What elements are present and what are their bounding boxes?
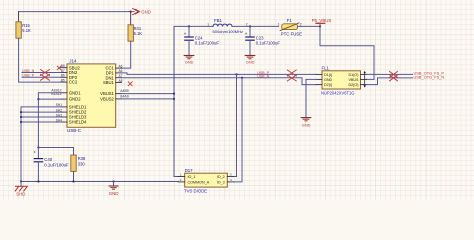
svg-text:F1: F1 <box>287 18 293 23</box>
svg-text:2: 2 <box>300 22 302 26</box>
wire USB_N run <box>122 78 317 85</box>
svg-text:B7: B7 <box>61 69 65 73</box>
wire GND1 <box>38 93 60 99</box>
ground GND under C24 <box>184 56 194 59</box>
svg-text:B5: B5 <box>61 78 65 82</box>
svg-text:GND: GND <box>141 10 151 15</box>
svg-text:1: 1 <box>278 22 280 26</box>
svg-text:NUP2042XV6T1G: NUP2042XV6T1G <box>321 91 354 96</box>
connector J14 USB-C body <box>67 64 116 127</box>
svg-text:D1(I): D1(I) <box>324 73 332 77</box>
ground GND (bottom) <box>113 182 115 186</box>
svg-text:VBUS2: VBUS2 <box>100 97 114 102</box>
svg-text:IO_1: IO_1 <box>188 175 196 179</box>
wire SHIELD2 <box>21 111 61 113</box>
no-ERC crosses left pair <box>41 70 50 81</box>
wire USB_OTG_FS_N out <box>367 78 413 85</box>
svg-text:C23: C23 <box>256 35 264 40</box>
svg-text:GND: GND <box>302 124 311 128</box>
wire GND2 <box>38 98 60 100</box>
svg-text:CC2: CC2 <box>69 80 78 85</box>
svg-text:GND: GND <box>246 60 255 64</box>
J14 right pin stubs <box>116 68 122 99</box>
no-ERC cross on SBU2 pin <box>57 66 61 70</box>
svg-text:R41: R41 <box>134 26 142 31</box>
svg-text:TVS DIODE: TVS DIODE <box>184 189 207 194</box>
svg-text:USB_N: USB_N <box>257 74 269 78</box>
J14 pin numbers <box>61 64 123 83</box>
svg-text:1: 1 <box>207 22 209 26</box>
svg-text:D17: D17 <box>185 168 193 173</box>
pin arrows FL1 right <box>364 71 366 88</box>
svg-text:IO_2: IO_2 <box>217 175 225 179</box>
TVS diode D17 <box>185 173 228 187</box>
power port P5_VBUS <box>319 23 321 26</box>
wire SHIELD3 <box>21 116 61 118</box>
wire GND top rail <box>19 11 131 13</box>
J14 pin names right <box>100 66 114 102</box>
capacitor C23 <box>249 26 251 37</box>
svg-text:SHIELD4: SHIELD4 <box>69 120 87 125</box>
svg-text:C40: C40 <box>44 157 52 162</box>
pin designators SH1-SH4 <box>56 103 62 122</box>
svg-text:5.1K: 5.1K <box>134 31 143 36</box>
wire bottom GND bus <box>21 181 178 183</box>
resistor R41 <box>130 12 132 25</box>
svg-text:B6: B6 <box>61 74 65 78</box>
wire GND bus down to C40 <box>37 99 39 147</box>
svg-text:USB_OTG_FS_N: USB_OTG_FS_N <box>414 75 445 80</box>
svg-text:SHD: SHD <box>16 192 25 197</box>
wire shield RC top <box>38 147 73 149</box>
J14 left pin stubs <box>61 68 68 122</box>
ground chassis SHD <box>20 182 22 187</box>
wire SHIELD4 <box>21 121 61 123</box>
svg-text:C24: C24 <box>195 35 203 40</box>
svg-text:0.1uF/100uF: 0.1uF/100uF <box>195 41 220 46</box>
junction GND bus <box>37 98 39 100</box>
svg-text:2: 2 <box>246 22 248 26</box>
svg-text:600ohm/100MHz: 600ohm/100MHz <box>213 29 243 34</box>
svg-text:GND: GND <box>324 78 333 82</box>
svg-text:P5_VBUS: P5_VBUS <box>312 18 332 23</box>
resistor R15 <box>18 12 20 22</box>
svg-text:D1(O): D1(O) <box>348 73 358 77</box>
svg-text:D2(O): D2(O) <box>348 83 358 87</box>
svg-text:B4A9: B4A9 <box>120 94 128 98</box>
no-ERC crosses right pair <box>390 71 398 81</box>
svg-text:J14: J14 <box>69 59 77 64</box>
capacitor C40 <box>37 148 39 159</box>
wire VBUS2 <box>122 98 175 100</box>
svg-text:GND2: GND2 <box>69 97 81 102</box>
J14 pin names left <box>69 65 87 124</box>
capacitor C24 <box>188 26 190 37</box>
wire R15 to CC2 <box>19 38 61 82</box>
wire USB_P run <box>122 73 317 75</box>
svg-text:GND: GND <box>109 191 119 196</box>
junction at R41 top <box>130 11 132 13</box>
svg-text:GND: GND <box>185 60 194 64</box>
svg-text:VBUS1: VBUS1 <box>100 91 114 96</box>
svg-text:FB1: FB1 <box>214 18 222 23</box>
resistor R38 <box>73 148 75 156</box>
wire USB_P to DP2 <box>22 76 61 78</box>
ESD array FL1 <box>322 71 361 89</box>
svg-text:A8: A8 <box>119 79 123 83</box>
wire VBUS1 <box>122 93 175 95</box>
svg-text:FL1: FL1 <box>322 65 330 70</box>
svg-text:A4B9: A4B9 <box>120 89 128 93</box>
wire SHIELD1 <box>21 107 61 182</box>
svg-text:GND1: GND1 <box>69 90 81 95</box>
svg-text:R15: R15 <box>22 23 30 28</box>
svg-text:IO_3: IO_3 <box>217 181 225 185</box>
wire FL1 GND <box>306 79 316 117</box>
svg-text:A5: A5 <box>119 64 123 68</box>
wire USB_OTG_FS_P out <box>367 73 413 75</box>
wire VBUS riser / down to D17 <box>174 26 178 176</box>
svg-text:330: 330 <box>78 162 86 167</box>
no-ERC cross on SBU1 pin <box>128 82 132 86</box>
wire VBUS rail <box>174 25 213 27</box>
junction riser P <box>235 73 237 75</box>
wire riser to D17 IO3 <box>234 78 242 182</box>
wire USB_N to DN2 <box>22 72 61 74</box>
svg-text:SBU1: SBU1 <box>103 80 115 85</box>
svg-text:R38: R38 <box>78 156 86 161</box>
wire VBUS drop to FL1 <box>320 26 374 79</box>
svg-text:5.1K: 5.1K <box>22 28 31 33</box>
svg-text:USB-C: USB-C <box>67 128 82 133</box>
svg-text:0.1uF/100uF: 0.1uF/100uF <box>44 163 69 168</box>
junction riser N <box>241 77 243 79</box>
svg-text:VBUS: VBUS <box>348 78 359 82</box>
svg-text:0.1uF/100uF: 0.1uF/100uF <box>256 41 281 46</box>
ground GND under FL1 <box>301 118 311 121</box>
ground GND under C23 <box>245 56 255 59</box>
wire R41 to CC1 <box>122 41 131 68</box>
power port GND arrow (top) <box>131 8 140 14</box>
svg-text:PTC FUSE: PTC FUSE <box>281 31 302 36</box>
svg-text:D2(I): D2(I) <box>324 83 332 87</box>
no-ERC crosses mid pair <box>287 70 296 81</box>
wire riser to D17 IO2 <box>234 74 237 176</box>
svg-text:COMMON_A: COMMON_A <box>188 181 210 185</box>
